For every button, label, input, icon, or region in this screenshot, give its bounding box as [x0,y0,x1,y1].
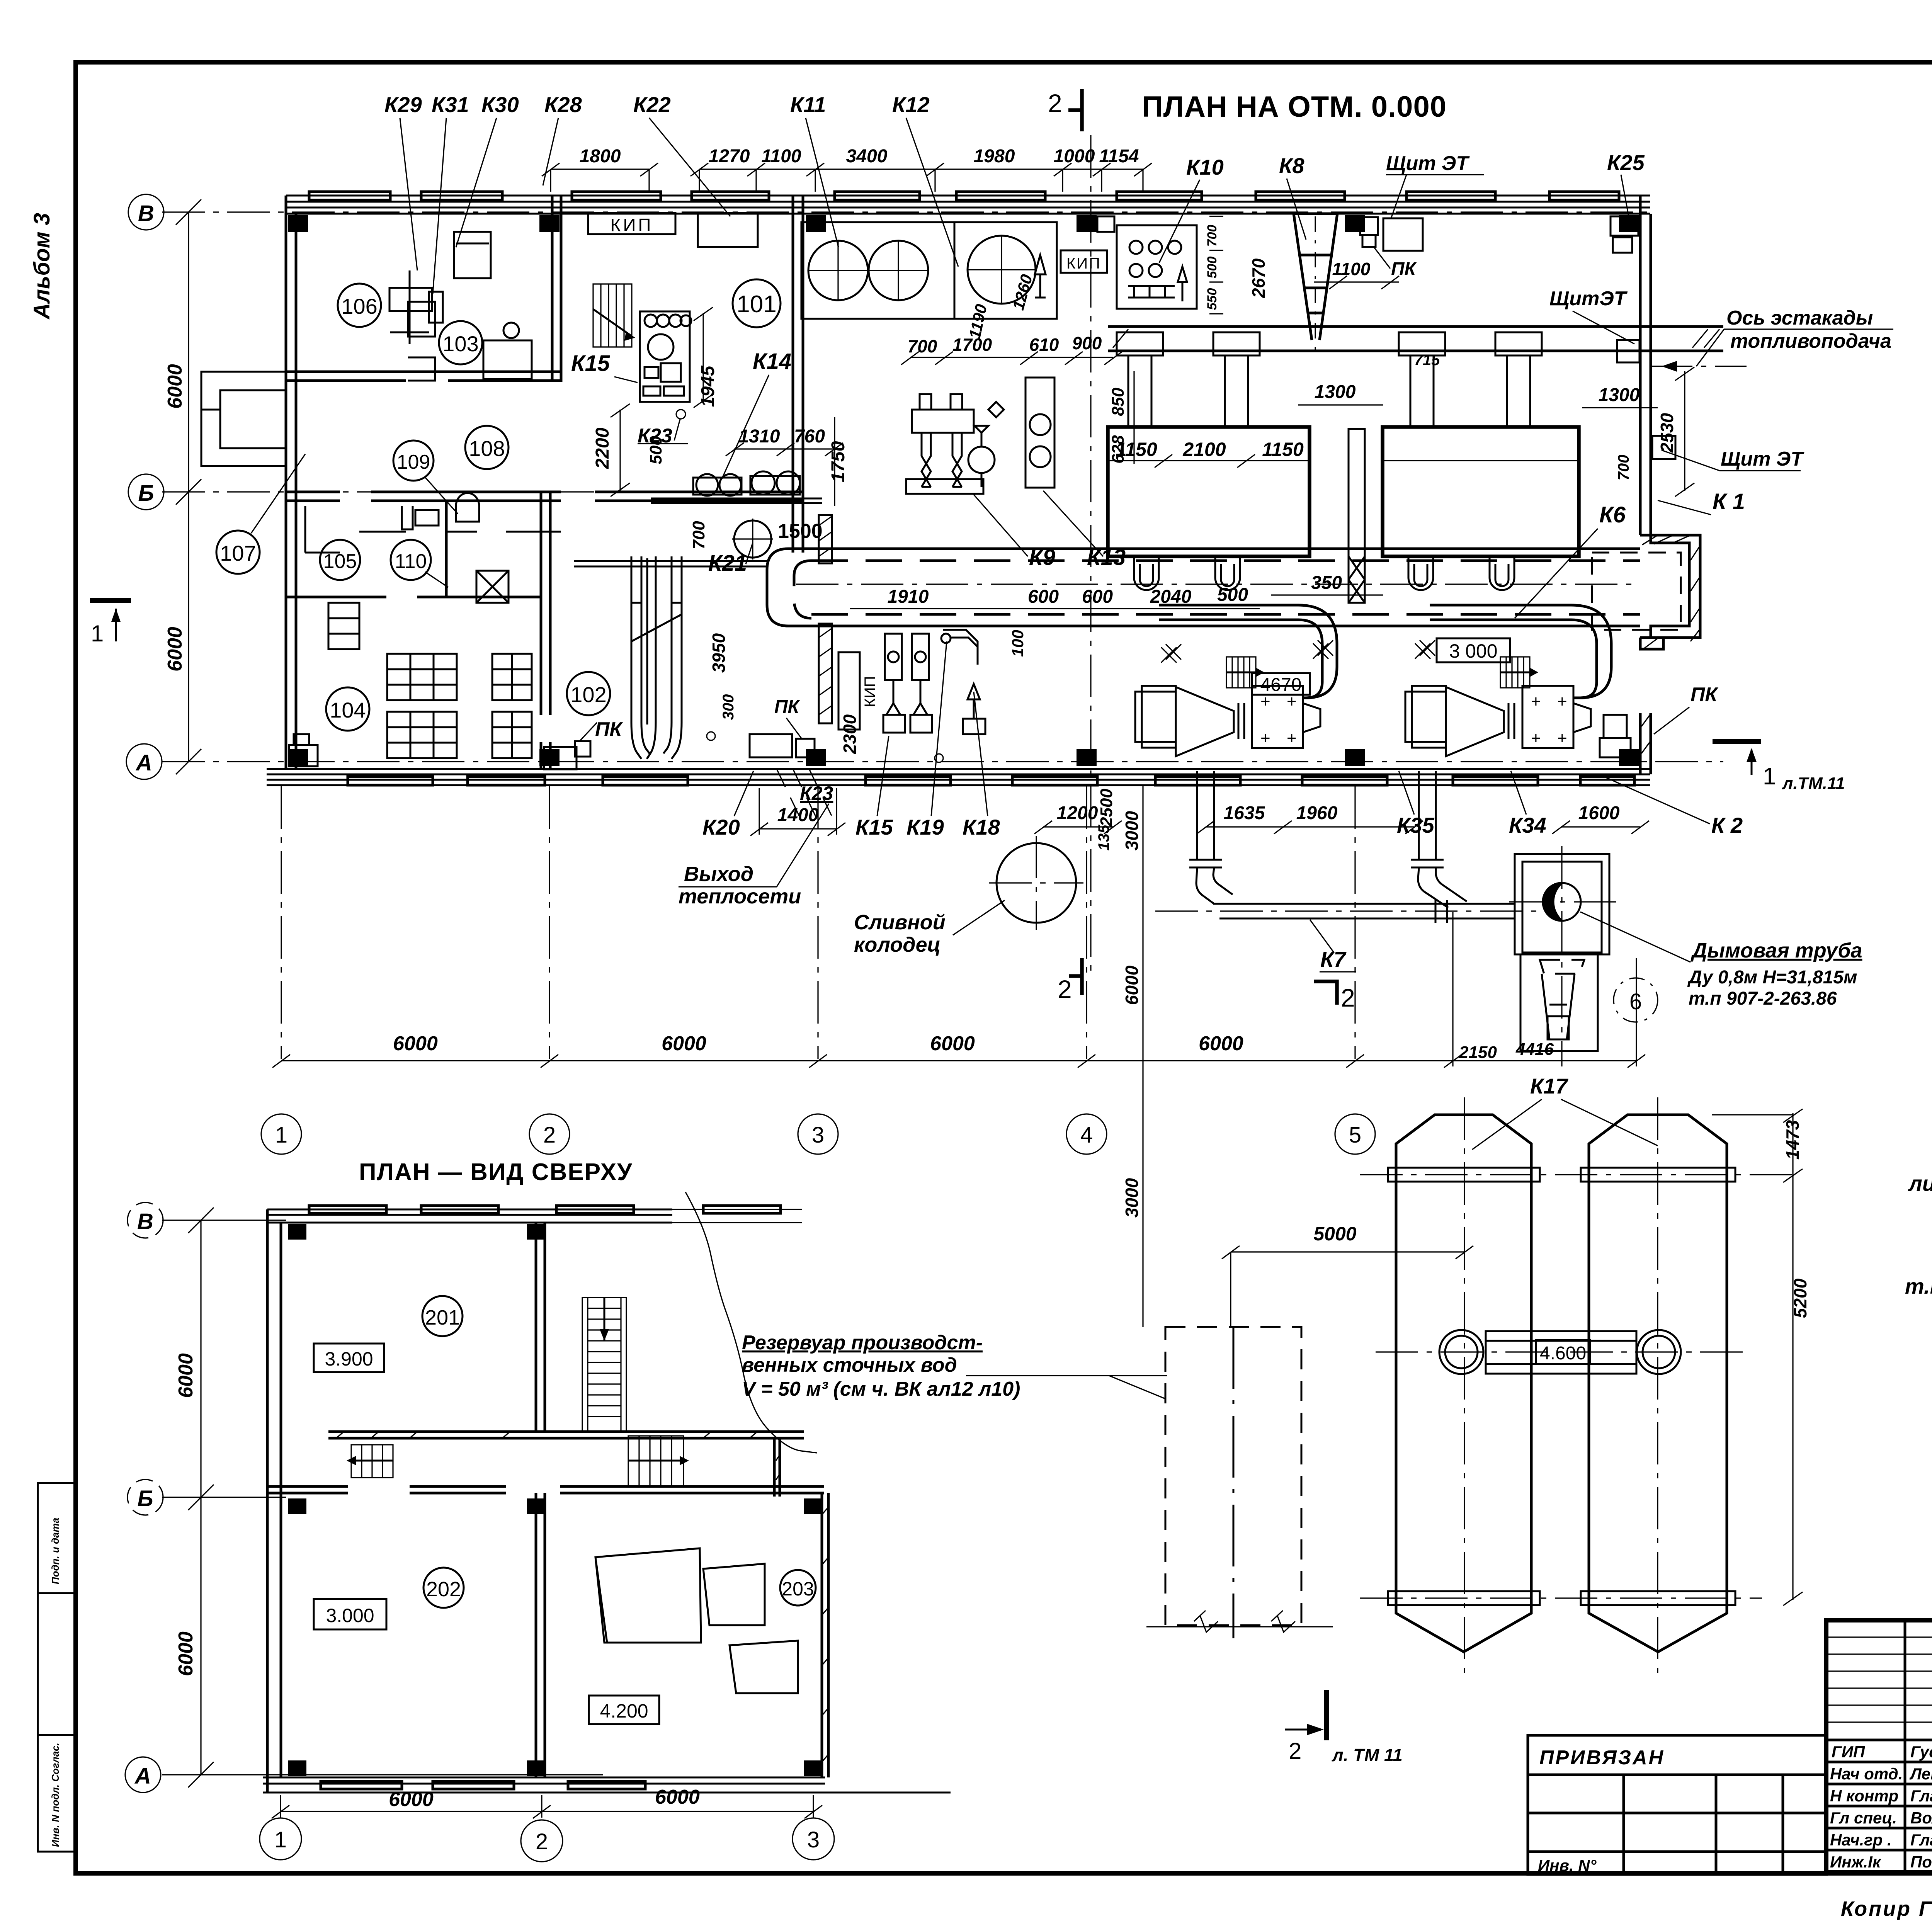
tank 2 [1589,1115,1727,1652]
stairs in hall near K15 [593,284,635,347]
svg-text:Ось эстакады: Ось эстакады [1726,307,1873,329]
level mark 3.900 [314,1344,384,1372]
svg-text:+: + [1557,692,1567,711]
svg-text:4: 4 [1080,1122,1093,1148]
wall x1400 between 104 and 102 [541,492,550,769]
svg-text:А: А [135,750,152,776]
svg-text:V = 50 м³ (см ч. ВК ал12 л10: V = 50 м³ (см ч. ВК ал12 л10) [742,1378,1020,1400]
room circle 102 [567,672,610,715]
label 3000 boxed [1437,638,1510,662]
section line 2-2 vertical [1090,135,1091,974]
svg-text:К22: К22 [633,92,671,117]
boiler unit 1 [1108,427,1310,556]
svg-text:107: 107 [220,541,256,565]
room 110 shower [402,493,509,603]
svg-text:К13: К13 [1087,545,1126,570]
svg-text:760: 760 [794,426,825,447]
svg-text:1960: 1960 [1296,803,1338,823]
circle 6 dash-dot [1614,978,1658,1022]
svg-text:3400: 3400 [846,146,888,167]
axis line Б2 [162,1497,286,1498]
right bay walls hatched [1640,524,1700,649]
room circle 108 [465,426,509,469]
svg-text:К10: К10 [1186,155,1224,179]
svg-text:2200: 2200 [592,427,613,469]
svg-text:1100: 1100 [761,146,801,167]
svg-text:Лепендин: Лепендин [1909,1765,1932,1783]
stair 3 plan2 [347,1445,393,1478]
left vertical dim line [176,199,201,774]
labels К20 К15 К19 К18 under wall [702,815,1000,839]
svg-text:Гладикова: Гладикова [1910,1787,1932,1805]
column pilasters top wall [288,215,1639,232]
box with ПК in 102 bottom [750,734,815,757]
svg-text:500: 500 [646,436,665,464]
wall y1545 under 105/110 [286,596,541,599]
Сливной колодец label [854,911,946,956]
svg-text:203: 203 [782,1578,814,1600]
svg-text:2: 2 [1289,1738,1301,1764]
axis line В [162,211,1650,213]
svg-text:1: 1 [91,621,104,646]
room circle 202 [423,1568,464,1608]
svg-text:350: 350 [1311,573,1342,593]
panels beyond break top [672,1206,802,1223]
привязан box [1528,1735,1827,1775]
КИП label small [1061,250,1107,273]
svg-text:6000: 6000 [175,1631,197,1676]
pump group К9 [906,394,1004,494]
smoke box square with circle [1515,854,1609,954]
К21 flask circle [734,520,771,558]
svg-text:2: 2 [536,1829,548,1854]
duct elbow to fan 1 [1159,605,1337,698]
small boxes near tank top wall [1097,216,1114,232]
small circles floor drains [707,732,715,740]
svg-text:850: 850 [1109,388,1128,416]
axis circle В2 [128,1202,163,1238]
label 4670 [1252,673,1310,695]
boiler flue connections [1117,332,1542,427]
axis circle В [128,194,164,230]
plan2 right wall lower [822,1493,828,1777]
svg-text:1310: 1310 [739,426,780,447]
room 104 lockers [387,654,532,758]
chimney base below smoke box [1520,954,1598,1051]
room circle 105 [320,540,360,580]
svg-text:3: 3 [812,1122,824,1148]
svg-text:Подп. и дата: Подп. и дата [49,1518,61,1584]
svg-text:104: 104 [330,698,366,722]
deaerator row К14 [651,471,822,503]
svg-text:1800: 1800 [580,146,621,167]
svg-text:К17: К17 [1530,1074,1569,1098]
svg-text:К25: К25 [1607,150,1645,175]
wall x1429 top block [552,196,561,382]
left exterior wall [286,196,296,769]
wall between offices and boiler hall x2075 [793,196,803,553]
svg-text:К9: К9 [1029,545,1055,570]
leader 110 [425,572,448,587]
room big circle 101 [733,279,781,327]
axis line А2 [162,1774,603,1775]
stair 2 plan2 [628,1436,689,1486]
svg-text:Сливной: Сливной [854,911,946,934]
svg-text:Нач отд.: Нач отд. [1830,1765,1903,1783]
svg-text:К15: К15 [571,351,610,376]
plan2 top wall panels [309,1206,634,1213]
room 106 furniture [389,270,443,344]
top exterior wall [286,196,1650,214]
svg-text:900: 900 [1072,333,1102,353]
svg-text:Гусева: Гусева [1910,1743,1932,1761]
room circle 104 [326,687,369,731]
room circle 107 [216,531,260,574]
plan2 bottom circles 1 2 3 [260,1818,834,1862]
tank axes [1360,1097,1797,1673]
svg-text:4416: 4416 [1515,1040,1554,1059]
svg-text:К23: К23 [800,782,833,804]
svg-text:К 1: К 1 [1713,489,1745,514]
Выход теплосети [679,862,801,908]
small stair near fan 1 [1226,657,1264,688]
fan unit 2 [1405,686,1591,756]
svg-text:+: + [1531,729,1541,748]
plan2 pilasters [288,1224,821,1776]
hatch crosses on gallery floor [1161,640,1435,663]
band dims 1910 600 600 2040 [888,585,1248,607]
column circles 1-5 [261,1114,1375,1154]
svg-text:К6: К6 [1599,502,1626,527]
svg-text:теплосети: теплосети [679,885,801,908]
top wall window panels [309,192,1619,200]
wall Б axis left block [286,492,803,501]
svg-text:Волкова: Волкова [1910,1809,1932,1827]
corridor partition room 109 [359,501,561,532]
room 105 shelving [305,506,359,649]
svg-text:2: 2 [1058,975,1072,1003]
unit К15 [640,311,691,402]
plan2 left wall [267,1209,281,1793]
level mark 4.200 [589,1696,659,1724]
svg-text:6000: 6000 [1122,965,1142,1005]
dashed axis lines below building columns [281,786,1355,1059]
section mark 2 л.ТМ 11 [1285,1690,1403,1765]
svg-text:К28: К28 [544,92,582,117]
svg-text:К20: К20 [702,815,740,839]
svg-text:1750: 1750 [828,441,849,482]
svg-text:1: 1 [1763,763,1776,790]
plan2 bottom dim line [272,1795,822,1818]
panel К13 [1026,378,1054,488]
svg-text:Б: Б [137,1486,153,1511]
svg-text:110: 110 [395,550,427,573]
svg-text:3000: 3000 [1122,1178,1142,1218]
svg-text:2530: 2530 [1657,413,1677,453]
svg-text:6000: 6000 [389,1788,434,1811]
svg-text:100: 100 [1009,630,1027,657]
svg-text:6000: 6000 [164,364,186,409]
bottom dim line with 6000s [272,912,1645,1068]
svg-text:А: А [134,1764,151,1789]
svg-text:ПРИВЯЗАН: ПРИВЯЗАН [1539,1747,1665,1769]
tank 1 belts [1388,1168,1540,1605]
svg-text:1150: 1150 [1262,439,1304,460]
room circle 106 [338,284,381,327]
svg-text:6000: 6000 [1199,1032,1243,1055]
room 102 box ПК [544,741,590,769]
svg-text:К19: К19 [906,815,944,839]
svg-text:700: 700 [689,521,708,549]
svg-text:2: 2 [1048,89,1062,117]
svg-text:венных сточных вод: венных сточных вод [742,1354,957,1376]
svg-text:Выход: Выход [684,862,753,886]
middle column between boilers [1349,429,1365,603]
reservoir label [742,1332,1020,1400]
svg-text:2150: 2150 [1459,1043,1497,1062]
svg-text:ПЛАН НА ОТМ. 0.000: ПЛАН НА ОТМ. 0.000 [1142,90,1447,123]
svg-text:610: 610 [1029,335,1059,355]
svg-text:К35: К35 [1397,813,1435,837]
room circle 103 [439,321,482,364]
water filters box [801,222,1057,319]
svg-text:108: 108 [469,436,505,461]
svg-text:2500: 2500 [1097,789,1116,827]
title block revision grid [1826,1637,1932,1722]
svg-text:+: + [1287,729,1297,748]
svg-text:2670: 2670 [1248,258,1269,298]
dims 700 500 550 near К10 [1205,225,1219,310]
leader 107 [251,454,305,533]
entry porch room 107 [201,372,286,466]
svg-text:4.600: 4.600 [1540,1343,1586,1364]
ash chutes in room 102 [631,556,682,759]
reservoir center line [1233,1327,1235,1638]
svg-text:К7: К7 [1320,947,1347,971]
ПК console right wall [1600,715,1631,757]
pump cluster К18 К19 below band [883,630,985,734]
svg-text:6000: 6000 [175,1353,197,1398]
svg-text:3: 3 [807,1827,820,1852]
svg-text:Н контр: Н контр [1830,1787,1898,1805]
svg-text:1300: 1300 [1599,385,1640,405]
svg-text:топливоподача: топливоподача [1730,330,1891,352]
room circle 203 [780,1570,816,1605]
tank 1 [1396,1115,1531,1652]
dims 700 1700 610 900 [908,333,1102,356]
svg-text:5000: 5000 [1313,1223,1356,1245]
section mark 2 bottom right [1314,981,1355,1012]
svg-text:135: 135 [1095,825,1112,850]
svg-text:Инв. N°: Инв. N° [1538,1856,1597,1874]
axis circle А [126,744,162,779]
svg-text:ПЛАН — ВИД СВЕРХУ: ПЛАН — ВИД СВЕРХУ [359,1159,633,1185]
plan2 top wall [267,1209,672,1223]
svg-text:3 000: 3 000 [1449,640,1497,662]
svg-text:К 2: К 2 [1711,813,1743,837]
svg-text:201: 201 [425,1306,460,1329]
svg-text:1500: 1500 [778,520,823,543]
svg-text:1: 1 [274,1827,287,1852]
svg-text:В: В [138,201,154,226]
svg-text:листах ТМ-10 , ТМ-11 .: листах ТМ-10 , ТМ-11 . [1908,1171,1932,1196]
svg-text:колодец: колодец [854,933,941,956]
axis line В2 [162,1219,286,1221]
section mark 2 top [1048,89,1082,131]
corner boxes room 104 [289,734,318,766]
svg-text:+: + [1557,729,1567,748]
duct elbow to fan 2 [1430,605,1611,698]
plan2 corridor right end wall [774,1438,780,1497]
tambour dashed room in bay [1592,553,1681,630]
section mark 1 лТМ11 right [1713,739,1845,793]
gallery band across hall [767,549,1640,626]
svg-text:1154: 1154 [1099,146,1139,167]
reservoir dashed [1165,1327,1301,1625]
label 4.600 [1536,1340,1590,1364]
svg-text:1: 1 [275,1122,287,1148]
svg-text:К12: К12 [892,92,930,117]
svg-text:Нач.гр .: Нач.гр . [1830,1831,1892,1849]
title block outer [1826,1620,1932,1872]
svg-text:К15: К15 [855,815,893,839]
boiler bottom u-tubes [1134,556,1514,590]
svg-text:715: 715 [1414,352,1440,369]
signature rows names [1909,1743,1932,1871]
svg-text:1945: 1945 [698,365,718,407]
svg-text:6000: 6000 [655,1786,700,1808]
svg-text:Щит ЭТ: Щит ЭТ [1721,448,1804,470]
svg-text:1980: 1980 [974,146,1015,167]
svg-text:К11: К11 [790,92,826,117]
right wall lower segment [1640,713,1651,774]
svg-text:2: 2 [543,1122,556,1148]
top right corner boxes К25 [1611,216,1638,253]
svg-text:К29: К29 [384,92,422,117]
svg-text:3950: 3950 [709,633,729,673]
svg-text:1400: 1400 [777,805,819,825]
hatched pier right of 102 [819,515,832,563]
left vertical dim line plan2 [188,1207,214,1787]
wall under 102 to gallery [574,561,767,566]
plan2 middle vertical wall lower [536,1493,545,1777]
approval grid left of title block [1528,1775,1827,1874]
svg-text:л. ТМ 11: л. ТМ 11 [1332,1745,1403,1765]
svg-text:102: 102 [570,682,606,707]
svg-text:ПК: ПК [595,718,623,741]
svg-text:ГИП: ГИП [1832,1743,1865,1761]
tilted vent plates room 203 [595,1548,798,1693]
КИП vertical box in 102 [838,652,860,730]
svg-text:1200: 1200 [1057,803,1098,823]
svg-text:101: 101 [736,291,776,318]
svg-text:Инв. N подл. Соглас.: Инв. N подл. Соглас. [49,1743,61,1847]
right exterior wall upper [1640,196,1651,535]
tank 2 belts [1581,1168,1735,1605]
axis circle Б [128,474,164,510]
svg-text:6000: 6000 [393,1032,438,1055]
svg-text:КИП: КИП [1066,255,1101,272]
svg-text:628: 628 [1109,435,1128,464]
section mark 2 bottom [1058,958,1082,1003]
svg-text:Копир Ганкова: Копир Ганкова [1841,1897,1932,1920]
left margin stamp boxes [38,1483,76,1852]
signature rows titles [1830,1743,1903,1871]
svg-text:КИП: КИП [862,676,879,707]
svg-text:ПК: ПК [774,697,801,717]
svg-text:2100: 2100 [1182,439,1226,460]
svg-text:5: 5 [1349,1122,1361,1148]
wall under rooms 106/103 [286,372,561,381]
svg-text:700: 700 [1615,455,1632,481]
Щит ЭТ box and ПК at top [1383,218,1423,251]
room circle 201 [422,1296,463,1336]
Ось эстакады label [1726,307,1891,352]
small stair near fan 2 [1500,657,1538,688]
svg-text:ПК: ПК [1391,259,1417,279]
svg-text:1635: 1635 [1224,803,1265,823]
tank manholes and bridge [1439,1330,1681,1374]
boiler unit 2 [1383,427,1579,556]
КИП box top [588,213,675,234]
svg-text:КИП: КИП [611,215,653,235]
svg-text:600: 600 [1028,587,1059,607]
svg-text:т.п. 903-1-273 89: т.п. 903-1-273 89 [1905,1274,1932,1298]
svg-text:Инж.Iк: Инж.Iк [1830,1853,1881,1871]
column pilasters bottom wall [288,749,1639,766]
svg-text:1300: 1300 [1315,382,1356,402]
svg-text:550: 550 [1205,288,1219,310]
svg-text:Гл спец.: Гл спец. [1830,1809,1897,1827]
svg-text:105: 105 [323,550,357,573]
svg-text:3.000: 3.000 [326,1605,374,1626]
room 103 furniture [408,302,532,381]
svg-text:ЩитЭТ: ЩитЭТ [1549,287,1628,310]
bottom exterior wall [267,769,1650,785]
К7 pipe from boiler row down [1189,771,1515,923]
svg-text:В: В [137,1209,153,1234]
room circle 109 [393,440,434,481]
bottom wall window panels [348,777,1634,785]
leaders from top labels [400,118,1629,294]
fan unit 1 [1135,686,1320,756]
pump station К10 [1117,225,1197,309]
box next to КИП [698,213,758,247]
svg-text:4.200: 4.200 [600,1700,648,1722]
svg-text:К21: К21 [708,551,747,576]
svg-text:6000: 6000 [930,1032,975,1055]
svg-text:103: 103 [442,332,478,356]
big stairwell plan2 [582,1298,626,1432]
svg-text:106: 106 [341,294,377,318]
pier hatched lower [819,624,832,723]
svg-text:К34: К34 [1509,813,1546,837]
boiler 1 dims 1150 2100 1150 [1116,439,1304,460]
svg-text:700: 700 [1205,225,1219,247]
smoke manifold duct [1108,327,1723,351]
svg-text:2: 2 [1341,983,1355,1012]
svg-text:202: 202 [426,1578,461,1601]
reservoir break line with marks [1146,1611,1333,1632]
svg-text:+: + [1260,729,1270,748]
svg-text:600: 600 [1082,587,1113,607]
svg-text:6000: 6000 [164,627,186,672]
svg-text:л.ТМ.11: л.ТМ.11 [1782,774,1845,793]
svg-text:К31: К31 [432,92,469,117]
svg-text:Ду 0,8м Н=31,815м: Ду 0,8м Н=31,815м [1687,967,1857,988]
svg-text:6000: 6000 [662,1032,706,1055]
plan2 corridor lower wall [267,1486,824,1493]
